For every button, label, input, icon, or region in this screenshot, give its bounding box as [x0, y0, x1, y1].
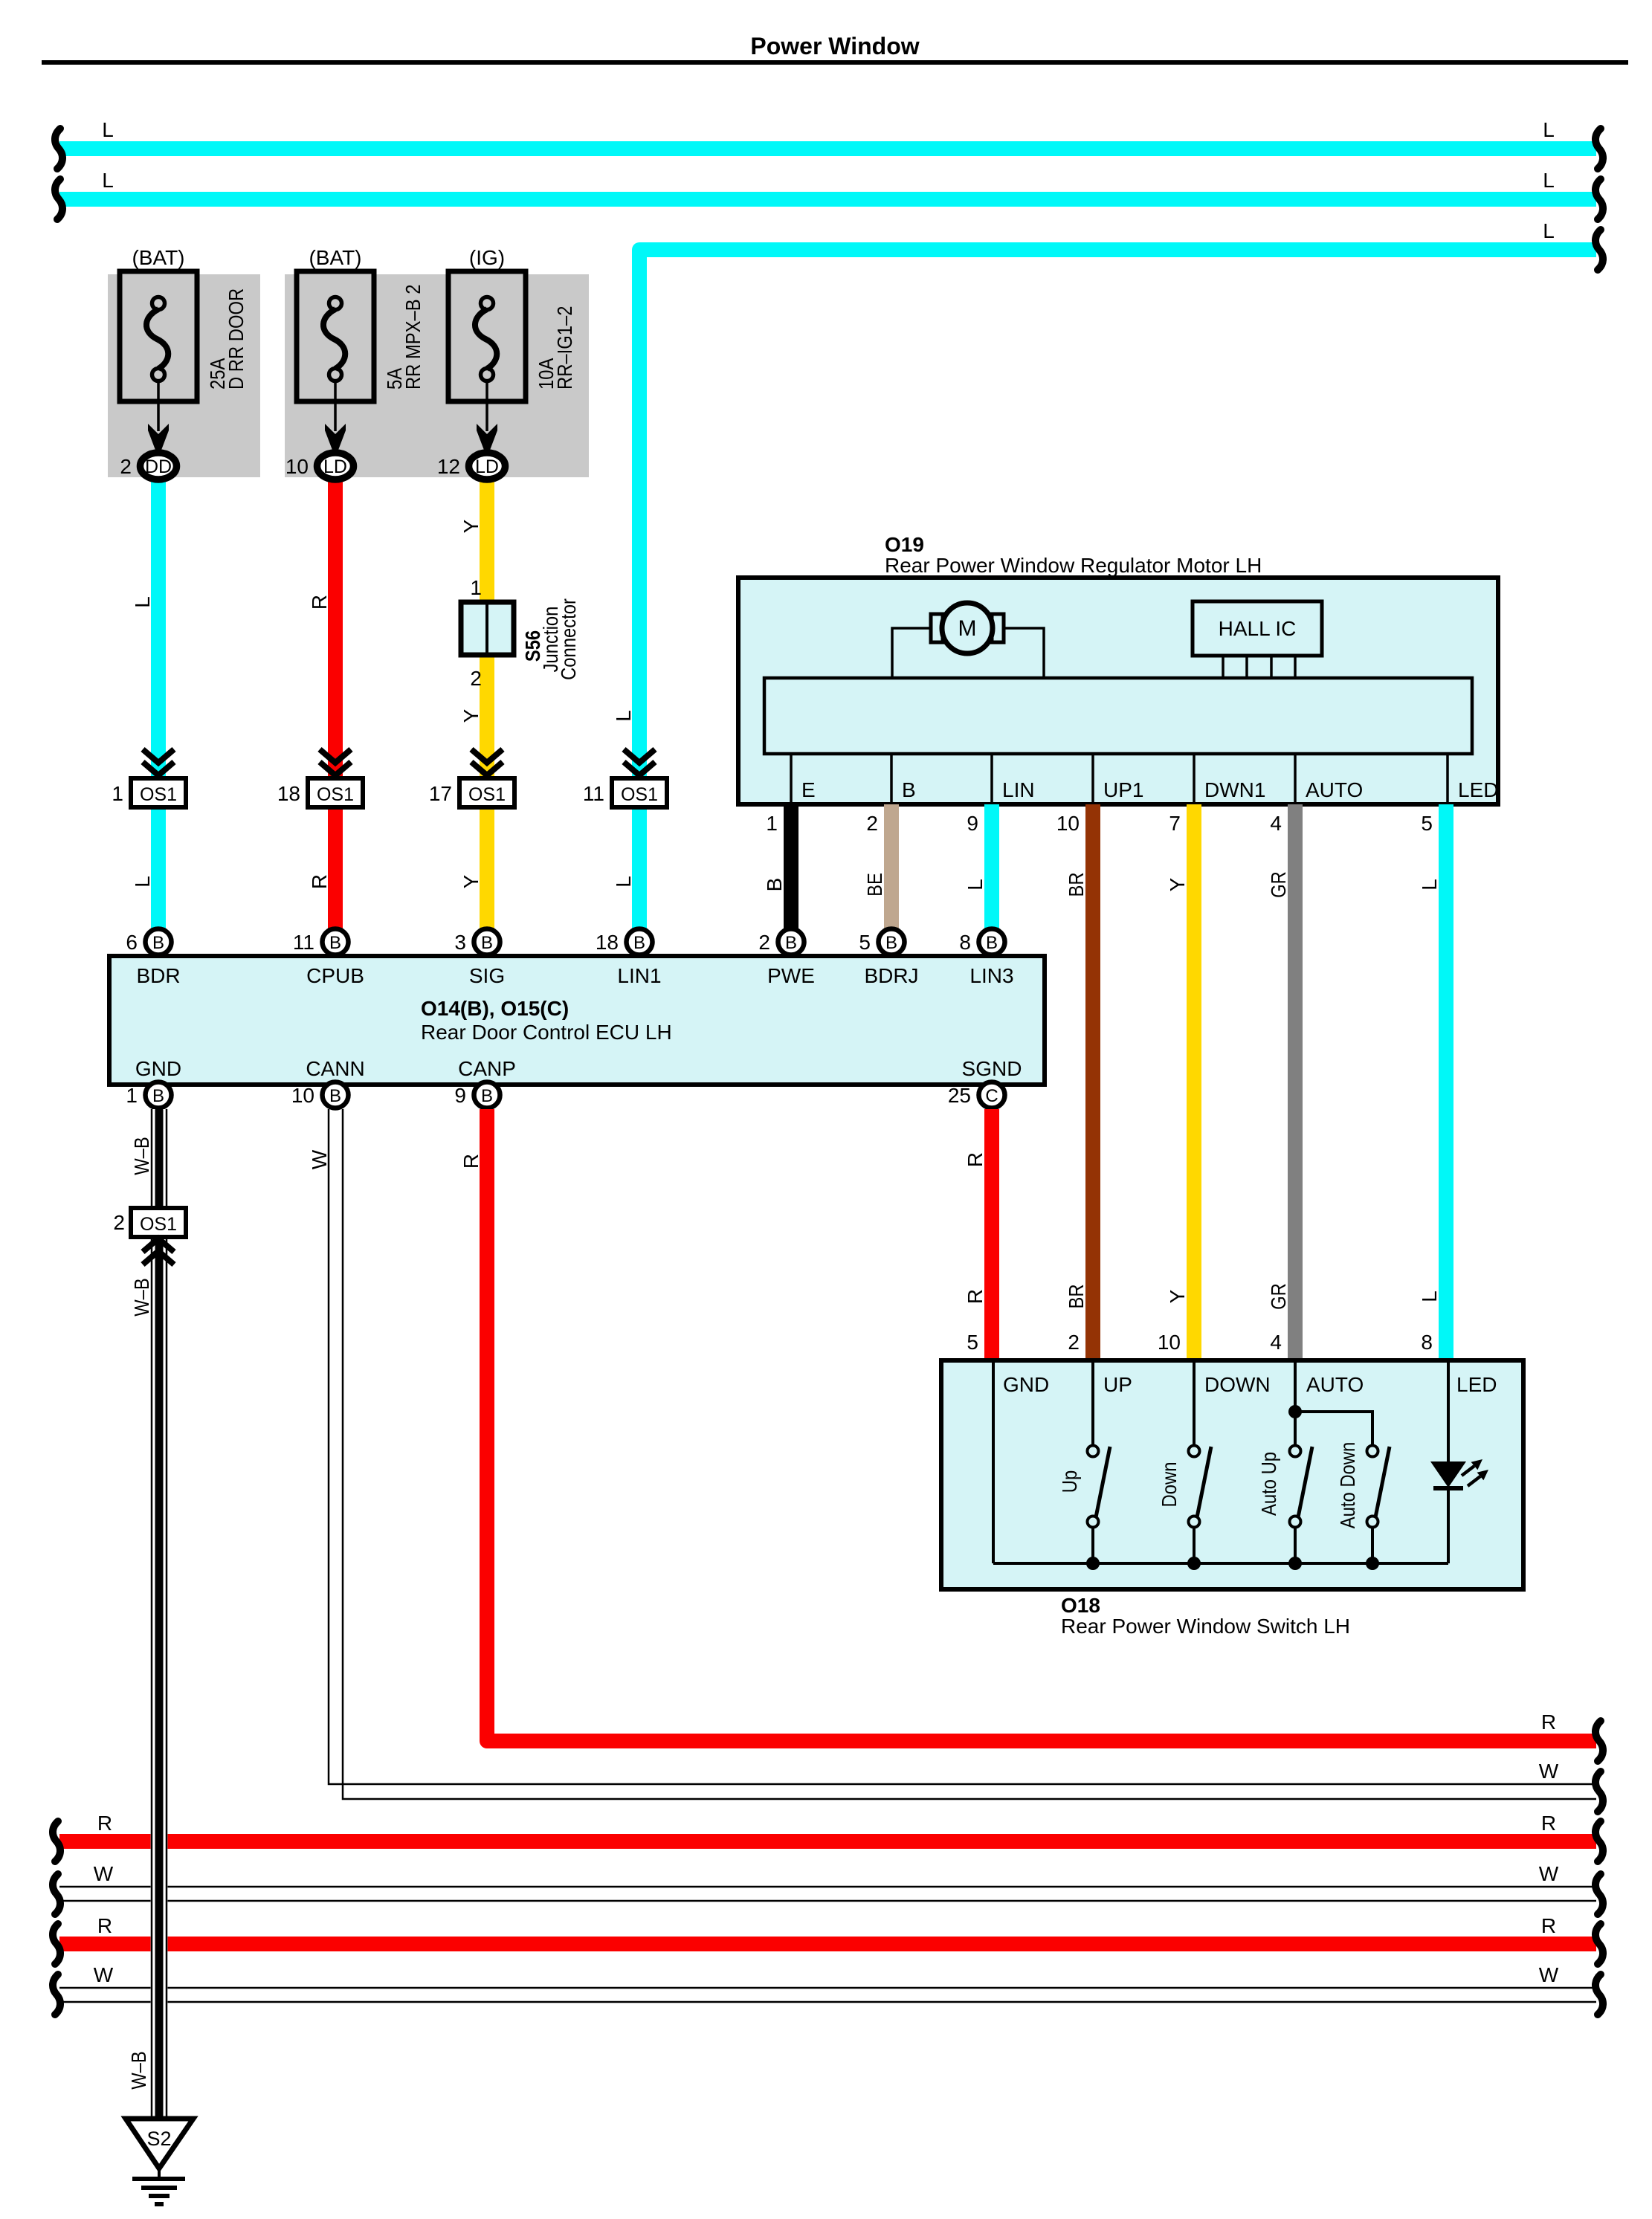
svg-text:DOWN: DOWN	[1204, 1373, 1271, 1396]
svg-text:8: 8	[1421, 1331, 1433, 1354]
label Auto Up	[1257, 1452, 1280, 1516]
svg-text:W: W	[1539, 1862, 1559, 1885]
break symbol Wbus2 left	[53, 1974, 60, 2015]
svg-text:B: B	[633, 933, 645, 953]
svg-text:L: L	[1543, 219, 1555, 242]
label BE	[863, 873, 886, 897]
svg-text:Y: Y	[1166, 1289, 1189, 1303]
junction connector S56	[461, 602, 514, 655]
label Y upper	[1166, 877, 1189, 891]
label R CANP right	[1541, 1711, 1556, 1734]
switch Up	[1088, 1446, 1111, 1564]
svg-text:W: W	[94, 1963, 114, 1986]
label R bus1 left	[97, 1812, 112, 1835]
svg-text:CPUB: CPUB	[306, 964, 364, 987]
svg-text:B: B	[481, 1086, 493, 1106]
wire motor right to driver	[1004, 628, 1044, 678]
label Up	[1058, 1470, 1081, 1493]
connector OS1 pin 17	[429, 778, 514, 807]
label L wire1 lower	[131, 876, 154, 888]
title Power Window	[750, 33, 919, 59]
ECU pin label GND	[135, 1057, 181, 1080]
label W bus1 right	[1539, 1862, 1559, 1885]
label (BAT) fuse1	[132, 246, 184, 269]
svg-text:R: R	[308, 595, 331, 610]
svg-text:UP: UP	[1103, 1373, 1132, 1396]
wire GR O19 pin4 AUTO to O18 (gray)	[1288, 804, 1303, 1362]
label 10A RR-IG1-2	[535, 306, 576, 390]
svg-text:L: L	[1418, 1291, 1441, 1302]
ECU pin label SIG	[469, 964, 505, 987]
svg-text:7: 7	[1169, 812, 1181, 835]
pin 10 label	[1056, 812, 1080, 835]
svg-text:L: L	[612, 876, 635, 888]
svg-text:Y: Y	[459, 708, 483, 723]
svg-text:L: L	[1418, 879, 1441, 891]
O19 pin label UP1	[1103, 778, 1143, 801]
svg-text:BR: BR	[1065, 1284, 1088, 1308]
svg-text:LIN: LIN	[1002, 778, 1035, 801]
connector OS1 pin 17 chevron	[471, 749, 503, 775]
O18 pin label DOWN	[1204, 1373, 1271, 1396]
svg-text:B: B	[763, 878, 786, 892]
label W CANN right	[1539, 1760, 1559, 1783]
svg-text:Auto Down: Auto Down	[1336, 1442, 1359, 1529]
ECU pin label BDRJ	[864, 964, 918, 987]
break symbol Wbus1 left	[53, 1874, 60, 1914]
wire L LIN1 below elbow (cyan)	[632, 743, 647, 929]
O18 pin label AUTO	[1306, 1373, 1364, 1396]
wire BR O19 pin10 UP1 to O18 (brown)	[1085, 804, 1100, 1362]
svg-text:LD: LD	[475, 456, 499, 477]
svg-text:OS1: OS1	[468, 784, 506, 805]
junction dot AUTO	[1288, 1405, 1302, 1418]
label R wire2 lower	[308, 874, 331, 889]
O18 GND riser	[992, 1363, 995, 1563]
svg-text:B: B	[785, 933, 797, 953]
svg-text:B: B	[885, 933, 897, 953]
component O19 Rear Power Window Regulator Motor LH box	[738, 578, 1498, 804]
label W CANN	[308, 1149, 331, 1169]
svg-text:(BAT): (BAT)	[132, 246, 184, 269]
label BR upper	[1065, 872, 1088, 897]
svg-text:GR: GR	[1267, 1283, 1290, 1310]
svg-text:R: R	[1541, 1914, 1556, 1937]
wire B O19 pin1 E to PWE (black)	[784, 804, 798, 929]
O19 pin dividers	[791, 754, 1448, 802]
O18 DOWN riser	[1193, 1363, 1196, 1446]
connector OS1 pin 11	[583, 778, 667, 807]
svg-text:D RR DOOR: D RR DOOR	[225, 288, 248, 390]
svg-text:BR: BR	[1065, 872, 1088, 897]
svg-text:L: L	[1543, 169, 1555, 192]
svg-text:Rear Power Window Switch LH: Rear Power Window Switch LH	[1061, 1615, 1350, 1638]
svg-text:CANN: CANN	[306, 1057, 364, 1080]
label R CANP	[459, 1154, 483, 1169]
svg-text:LIN1: LIN1	[617, 964, 661, 987]
pin 9 label	[967, 812, 978, 835]
svg-text:10: 10	[291, 1084, 314, 1107]
svg-text:LED: LED	[1458, 778, 1498, 801]
svg-text:RR MPX–B 2: RR MPX–B 2	[401, 285, 425, 390]
svg-text:M: M	[958, 616, 977, 641]
connector OS1 pin 18	[277, 778, 363, 807]
ECU top pin 3 circle B	[454, 929, 500, 955]
ECU pin label LIN1	[617, 964, 661, 987]
svg-text:O18: O18	[1061, 1594, 1100, 1617]
svg-text:LD: LD	[323, 456, 347, 477]
label L bus2 right	[1543, 169, 1555, 192]
title underline	[42, 60, 1628, 65]
wire Y from LD through S56 to OS1 (yellow)	[480, 480, 494, 929]
ECU bottom pin 10 circle B	[291, 1082, 349, 1108]
switch Auto Down	[1367, 1446, 1390, 1564]
label R bus2 left	[97, 1914, 112, 1937]
label W bus2 right	[1539, 1963, 1559, 1986]
svg-text:B: B	[329, 1086, 341, 1106]
connector OS1 pin 1	[112, 778, 186, 807]
break symbol bus2 left	[55, 179, 62, 219]
O19 pin label E	[801, 778, 816, 801]
break symbol Rbus2 left	[53, 1924, 60, 1964]
svg-text:SIG: SIG	[469, 964, 505, 987]
label Down	[1158, 1462, 1181, 1508]
label W-B lower	[127, 2051, 150, 2090]
pin 5 label O18 GND	[967, 1331, 978, 1354]
svg-text:DD: DD	[145, 456, 172, 477]
svg-text:L: L	[1543, 118, 1555, 141]
motor M circle	[931, 603, 1004, 653]
ECU pin label CANN	[306, 1057, 364, 1080]
ECU bottom pin 25 circle C	[948, 1082, 1005, 1108]
svg-text:W: W	[308, 1149, 331, 1169]
break symbol bus3 right	[1595, 230, 1603, 270]
svg-text:10: 10	[1056, 812, 1080, 835]
label L LIN1 lower	[612, 876, 635, 888]
label Y wire3 lower	[459, 874, 483, 888]
fuse 10A RR-IG1-2	[448, 271, 526, 401]
ECU pin label PWE	[767, 964, 815, 987]
pin 2 S56	[470, 667, 482, 690]
O18 name	[1061, 1615, 1350, 1638]
svg-text:BDR: BDR	[136, 964, 180, 987]
connector OS1 pin 1 chevron	[143, 749, 174, 775]
svg-text:Y: Y	[1166, 877, 1189, 891]
connector LD fuse2	[317, 453, 354, 479]
svg-text:2: 2	[120, 455, 132, 478]
O19 pin label LIN	[1002, 778, 1035, 801]
svg-text:2: 2	[866, 812, 878, 835]
label R SGND upper	[964, 1152, 987, 1167]
wire R bus 1 (red horizontal)	[59, 1834, 1596, 1849]
label W bus2 left	[94, 1963, 114, 1986]
svg-text:Down: Down	[1158, 1462, 1181, 1508]
label (BAT) fuse2	[309, 246, 361, 269]
wire R from LD to OS1 (red)	[328, 480, 343, 929]
switch Auto Up	[1290, 1446, 1313, 1564]
wire Y O19 pin7 DWN1 to O18 (yellow)	[1187, 804, 1201, 1362]
svg-text:1: 1	[126, 1084, 138, 1107]
svg-text:OS1: OS1	[621, 784, 658, 805]
label R SGND lower	[964, 1289, 987, 1304]
O19 driver inner box	[764, 678, 1472, 754]
label L bus2 left	[102, 169, 114, 192]
label L LIN	[964, 879, 987, 891]
svg-text:Connector: Connector	[557, 598, 580, 680]
svg-text:SGND: SGND	[962, 1057, 1022, 1080]
svg-text:L: L	[131, 876, 154, 888]
connector OS1 pin2 chevron	[143, 1238, 174, 1264]
svg-text:CANP: CANP	[458, 1057, 516, 1080]
break symbol Rbus1 left	[53, 1821, 60, 1861]
O18 pin label UP	[1103, 1373, 1132, 1396]
svg-text:10: 10	[285, 455, 309, 478]
svg-text:UP1: UP1	[1103, 778, 1143, 801]
O18 bottom bus	[993, 1562, 1448, 1565]
label Y above S56	[459, 519, 483, 533]
wire L O19 pin9 LIN to LIN3 (cyan)	[984, 804, 999, 929]
svg-text:4: 4	[1270, 812, 1282, 835]
svg-text:11: 11	[583, 782, 604, 805]
wire L bus 3 (cyan, elbow to LIN1)	[639, 250, 1596, 751]
svg-text:L: L	[131, 596, 154, 608]
svg-text:17: 17	[429, 782, 452, 805]
svg-text:4: 4	[1270, 1331, 1282, 1354]
O19 pin label LED	[1458, 778, 1498, 801]
svg-text:10: 10	[1158, 1331, 1181, 1354]
junction dot bus x1606	[1187, 1557, 1201, 1570]
O18 designator	[1061, 1594, 1100, 1617]
svg-text:R: R	[459, 1154, 483, 1169]
svg-text:LIN3: LIN3	[969, 964, 1013, 987]
label L bus1 right	[1543, 118, 1555, 141]
svg-text:1: 1	[766, 812, 778, 835]
ECU top pin 11 circle B	[293, 929, 349, 955]
svg-text:11: 11	[293, 931, 314, 954]
svg-text:18: 18	[277, 782, 300, 805]
HALL IC stub wires	[1223, 656, 1295, 678]
svg-text:E: E	[801, 778, 816, 801]
svg-text:Power Window: Power Window	[750, 33, 919, 59]
svg-text:L: L	[612, 710, 635, 722]
HALL IC box	[1193, 601, 1322, 656]
break symbol CANN right	[1595, 1771, 1603, 1812]
O19 pin label DWN1	[1204, 778, 1265, 801]
pin 12 label LD	[437, 455, 460, 478]
arrow fuse1 to DD	[148, 382, 169, 452]
svg-text:6: 6	[126, 931, 138, 954]
label (IG) fuse3	[469, 246, 505, 269]
svg-text:R: R	[964, 1152, 987, 1167]
svg-text:R: R	[97, 1812, 112, 1835]
fuse 25A D RR DOOR	[120, 271, 197, 401]
label BR lower	[1065, 1284, 1088, 1308]
component O19 designator	[885, 533, 924, 556]
junction dot bus x1846	[1366, 1557, 1379, 1570]
break symbol CANP right	[1595, 1721, 1603, 1761]
ECU pin label LIN3	[969, 964, 1013, 987]
svg-text:W–B: W–B	[127, 2051, 150, 2090]
wire BE O19 pin2 B to BDRJ (beige)	[884, 804, 899, 929]
ECU pin label CPUB	[306, 964, 364, 987]
wire R SGND to O18 GND (red)	[984, 1109, 999, 1362]
label 5A RR MPX-B 2	[383, 285, 425, 390]
label R bus1 right	[1541, 1812, 1556, 1835]
svg-text:Y: Y	[459, 519, 483, 533]
label L bus3 right	[1543, 219, 1555, 242]
label W bus1 left	[94, 1862, 114, 1885]
switch Down	[1189, 1446, 1212, 1564]
svg-text:W–B: W–B	[130, 1137, 153, 1175]
svg-text:OS1: OS1	[140, 784, 177, 805]
wire R bus 2 (red horizontal)	[59, 1937, 1596, 1951]
label Junction Connector	[539, 598, 580, 680]
svg-text:W: W	[94, 1862, 114, 1885]
label B	[763, 878, 786, 892]
svg-text:1: 1	[470, 576, 482, 599]
pin 10 label O18 DOWN	[1158, 1331, 1181, 1354]
component O19 name	[885, 554, 1262, 577]
svg-text:LED: LED	[1456, 1373, 1497, 1396]
svg-text:HALL IC: HALL IC	[1219, 617, 1297, 640]
label L LED lower	[1418, 1291, 1441, 1302]
arrow fuse2 to LD	[325, 382, 346, 452]
LED symbol	[1430, 1363, 1466, 1563]
break symbol Wbus2 right	[1595, 1974, 1603, 2015]
svg-text:L: L	[102, 118, 114, 141]
svg-text:5: 5	[1421, 812, 1433, 835]
svg-text:9: 9	[454, 1084, 466, 1107]
pin 1 label	[766, 812, 778, 835]
fuse panel gray block 1	[108, 274, 260, 477]
svg-text:Y: Y	[459, 874, 483, 888]
label S56	[521, 630, 544, 662]
svg-text:C: C	[985, 1086, 998, 1106]
ECU bottom pin 9 circle B	[454, 1082, 500, 1108]
svg-text:R: R	[1541, 1711, 1556, 1734]
svg-text:B: B	[986, 933, 998, 953]
break symbol Wbus1 right	[1595, 1874, 1603, 1914]
svg-text:PWE: PWE	[767, 964, 815, 987]
O18 UP riser	[1091, 1363, 1094, 1446]
wire W bus 1 (white horizontal)	[59, 1887, 1596, 1901]
label GR upper	[1267, 871, 1290, 898]
svg-text:L: L	[102, 169, 114, 192]
svg-text:GND: GND	[1003, 1373, 1049, 1396]
O19 pin label B	[902, 778, 916, 801]
O19 pin label AUTO	[1306, 778, 1363, 801]
O18 pin label GND	[1003, 1373, 1049, 1396]
svg-text:5: 5	[859, 931, 871, 954]
connector LD fuse3	[469, 453, 506, 479]
wire L bus 2 (cyan horizontal)	[59, 192, 1596, 207]
label L LIN1	[612, 710, 635, 722]
svg-text:GND: GND	[135, 1057, 181, 1080]
svg-text:9: 9	[967, 812, 978, 835]
pin 2 label O18 UP	[1068, 1331, 1080, 1354]
svg-text:R: R	[97, 1914, 112, 1937]
wire W bus 2 (white horizontal)	[59, 1988, 1596, 2002]
break symbol bus1 right	[1595, 129, 1603, 169]
break symbol Rbus2 right	[1595, 1924, 1603, 1964]
ECU bottom pin 1 circle B	[126, 1082, 171, 1108]
pin 1 S56	[470, 576, 482, 599]
label L wire1	[131, 596, 154, 608]
break symbol bus1 left	[55, 129, 62, 169]
wire L from DD to OS1 (cyan)	[151, 480, 166, 929]
connector OS1 pin 11 chevron	[624, 749, 655, 775]
svg-text:8: 8	[959, 931, 971, 954]
break symbol bus2 right	[1595, 179, 1603, 219]
ECU pin label SGND	[962, 1057, 1022, 1080]
svg-text:18: 18	[596, 931, 619, 954]
svg-text:(IG): (IG)	[469, 246, 505, 269]
svg-text:5: 5	[967, 1331, 978, 1354]
svg-text:S2: S2	[146, 2128, 171, 2150]
pin 8 label O18 LED	[1421, 1331, 1433, 1354]
ECU pin label BDR	[136, 964, 180, 987]
svg-text:R: R	[308, 874, 331, 889]
fuse 5A RR MPX-B 2	[297, 271, 374, 401]
svg-text:O19: O19	[885, 533, 924, 556]
ECU top pin 8 circle B	[959, 929, 1004, 955]
wire W-B GND (white-black)	[151, 1109, 168, 2119]
svg-text:R: R	[1541, 1812, 1556, 1835]
connector DD	[141, 453, 177, 479]
component O14/O15 Rear Door Control ECU LH box	[109, 956, 1045, 1085]
svg-text:Up: Up	[1058, 1470, 1081, 1493]
ECU designator	[421, 997, 569, 1020]
wire L bus 1 (cyan horizontal)	[59, 141, 1596, 156]
label Auto Down	[1336, 1442, 1359, 1529]
svg-text:B: B	[481, 933, 493, 953]
pin 2 label	[866, 812, 878, 835]
svg-text:B: B	[329, 933, 341, 953]
label 25A D RR DOOR	[206, 288, 248, 390]
svg-text:BE: BE	[863, 873, 886, 897]
svg-text:W–B: W–B	[130, 1278, 153, 1317]
ECU top pin 6 circle B	[126, 929, 171, 955]
pin 10 label LD	[285, 455, 309, 478]
pin 4 label	[1270, 812, 1282, 835]
svg-text:1: 1	[112, 782, 123, 805]
svg-text:OS1: OS1	[317, 784, 354, 805]
svg-text:3: 3	[454, 931, 466, 954]
svg-text:Rear Power Window Regulator Mo: Rear Power Window Regulator Motor LH	[885, 554, 1262, 577]
pin 2 label DD	[120, 455, 132, 478]
ECU pin label CANP	[458, 1057, 516, 1080]
svg-text:AUTO: AUTO	[1306, 1373, 1364, 1396]
connector OS1 pin 18 chevron	[320, 749, 351, 775]
svg-text:AUTO: AUTO	[1306, 778, 1363, 801]
svg-text:2: 2	[113, 1211, 125, 1234]
connector OS1 pin 2	[113, 1208, 186, 1237]
ECU top pin 18 circle B	[596, 929, 653, 955]
O18 AUTO riser	[1294, 1363, 1297, 1446]
svg-text:O14(B), O15(C): O14(B), O15(C)	[421, 997, 569, 1020]
O18 auto-down branch	[1295, 1412, 1372, 1446]
wire R CANP (red)	[487, 1109, 1596, 1741]
label GR lower	[1267, 1283, 1290, 1310]
label Y below S56	[459, 708, 483, 723]
wire motor left to driver	[892, 628, 931, 678]
svg-text:(BAT): (BAT)	[309, 246, 361, 269]
svg-text:2: 2	[470, 667, 482, 690]
ground S2	[126, 2119, 193, 2204]
svg-text:BDRJ: BDRJ	[864, 964, 918, 987]
wire W CANN (white)	[329, 1109, 1596, 1799]
pin 7 label	[1169, 812, 1181, 835]
